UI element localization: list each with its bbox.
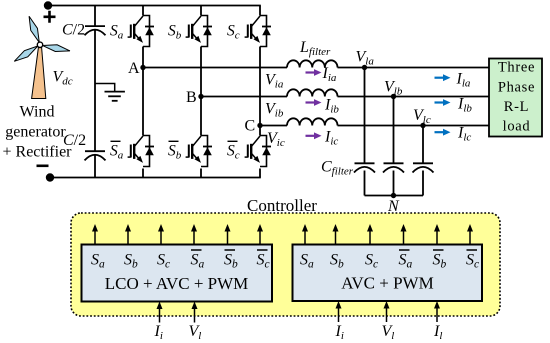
gate arrows left box (92, 224, 263, 245)
svg-text:LCO + AVC + PWM: LCO + AVC + PWM (105, 274, 249, 293)
svg-text:Vla: Vla (356, 48, 375, 67)
node A (128, 60, 146, 77)
svg-text:Sb: Sb (168, 23, 182, 42)
controller dotted box (71, 213, 500, 316)
svg-text:Vl: Vl (189, 323, 202, 342)
svg-text:Controller: Controller (247, 196, 317, 215)
svg-text:C/2: C/2 (62, 22, 85, 39)
svg-text:Iib: Iib (324, 97, 339, 116)
wind generator icon (12, 15, 71, 99)
svg-text:load: load (503, 119, 531, 135)
transistor Sc (245, 16, 271, 47)
wire top dc rail (48, 5, 261, 7)
svg-text:Vlc: Vlc (413, 107, 431, 126)
svg-text:Vl: Vl (382, 323, 395, 342)
inductor La (287, 60, 338, 67)
load box (489, 59, 542, 137)
svg-text:Il: Il (433, 323, 442, 342)
capacitor Cfilter a (354, 163, 375, 172)
wire cap branch c (422, 126, 424, 196)
transistor Sb-bar (186, 136, 212, 167)
svg-text:Phase: Phase (498, 79, 535, 95)
wire phase a output (143, 67, 287, 69)
block AVC+PWM (293, 245, 483, 302)
ground (95, 84, 125, 101)
current arrow Ilb (435, 96, 473, 115)
svg-text:Sa: Sa (110, 23, 124, 42)
label Sc-bar (227, 141, 240, 161)
label Sa-bar (110, 141, 124, 161)
wire phase c leg (259, 6, 261, 178)
wire dc bus (94, 6, 96, 178)
node Vlb (384, 78, 403, 99)
node Vlc (413, 107, 431, 128)
wire phase b output (201, 96, 287, 98)
node B (186, 89, 204, 106)
wire row a to load (338, 67, 490, 69)
capacitor Cfilter b (383, 163, 404, 172)
gate labels right box (300, 250, 479, 271)
wire bottom dc rail (50, 177, 261, 179)
wire row c to load (338, 125, 490, 127)
svg-text:C: C (245, 117, 256, 134)
svg-text:Ii: Ii (154, 323, 163, 342)
block LCO+AVC+PWM (82, 245, 273, 302)
wire phase c output (260, 125, 287, 127)
wire phase a leg (142, 6, 144, 178)
capacitor Cfilter c (413, 163, 434, 172)
current arrow Iia (306, 65, 337, 84)
plus sign (44, 11, 56, 23)
current arrow Iic (306, 128, 339, 147)
gate labels left box (91, 250, 270, 271)
svg-text:C/2: C/2 (63, 132, 86, 149)
svg-text:B: B (186, 89, 197, 106)
transistor Sb (186, 16, 212, 47)
capacitor C/2 top (85, 26, 106, 35)
svg-text:Lfilter: Lfilter (299, 39, 331, 58)
capacitor C/2 bottom (85, 151, 106, 160)
input arrows left box (157, 302, 198, 323)
svg-text:Ila: Ila (456, 71, 471, 90)
svg-text:Cfilter: Cfilter (321, 159, 354, 178)
current arrow Iib (306, 97, 340, 116)
transistor Sc-bar (245, 136, 271, 167)
current arrow Ilc (435, 125, 472, 144)
svg-text:Vlb: Vlb (384, 78, 403, 97)
svg-text:Wind: Wind (20, 104, 55, 121)
svg-text:Ii: Ii (335, 323, 344, 342)
current arrow Ila (435, 71, 471, 90)
wire phase b leg (200, 6, 202, 178)
svg-text:Sc: Sc (227, 23, 240, 42)
svg-text:A: A (128, 60, 140, 77)
svg-text:Vdc: Vdc (53, 69, 73, 88)
inductor Lb (287, 89, 338, 96)
svg-text:Iic: Iic (324, 128, 338, 147)
wire row b to load (338, 96, 490, 98)
svg-text:generator: generator (5, 124, 66, 141)
svg-text:Iia: Iia (322, 65, 337, 84)
svg-text:Vib: Vib (265, 101, 284, 120)
wire cap bank bottom (365, 195, 424, 197)
terminal + dot (44, 1, 52, 9)
node C (245, 117, 263, 134)
svg-text:AVC + PWM: AVC + PWM (341, 274, 433, 293)
minus sign (37, 165, 49, 168)
svg-text:Three: Three (498, 60, 535, 76)
transistor Sa-bar (128, 136, 154, 167)
svg-text:Sc: Sc (227, 143, 240, 162)
label Sb-bar (168, 141, 182, 161)
terminal - dot (46, 173, 54, 181)
input arrows right box (336, 301, 441, 322)
transistor Sa (128, 16, 154, 47)
gate arrows right box (302, 224, 473, 245)
svg-text:R-L: R-L (504, 99, 529, 115)
node Vla (356, 48, 375, 70)
svg-text:+ Rectifier: + Rectifier (3, 144, 73, 161)
svg-text:Sb: Sb (168, 143, 182, 162)
svg-text:Vic: Vic (267, 130, 285, 149)
svg-text:Via: Via (265, 72, 284, 91)
svg-text:Ilc: Ilc (457, 125, 471, 144)
node N (387, 193, 400, 215)
wire cap branch b (393, 97, 395, 196)
svg-text:Sa: Sa (110, 143, 124, 162)
wire cap branch a (364, 68, 366, 196)
svg-text:Ilb: Ilb (457, 96, 472, 115)
inductor Lc (287, 118, 338, 125)
